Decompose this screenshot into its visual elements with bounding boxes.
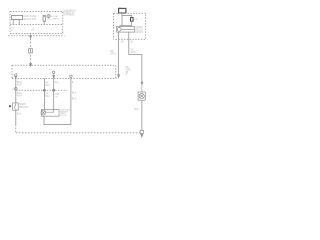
- BCM box bottom dashed line L2: [12, 77, 117, 79]
- BCM left dashed edge: [11, 65, 13, 78]
- horn switch box: [13, 103, 19, 110]
- switch ground wire: [15, 110, 17, 124]
- svg-text:WHT: WHT: [17, 95, 23, 97]
- horn feed wire labels block: [126, 67, 131, 76]
- svg-text:BLK: BLK: [17, 114, 22, 116]
- relay pin wire right: [128, 32, 130, 39]
- motor wire 1 (left): [43, 78, 45, 110]
- switch ground wire labels: [17, 114, 22, 116]
- svg-text:SWITCH: SWITCH: [19, 107, 28, 109]
- wire A dashed continuation: [30, 38, 32, 62]
- fuse F2 lower leg: [131, 21, 133, 26]
- BCM pin arrow (wash wire): [53, 74, 55, 79]
- relay label text: [136, 27, 144, 34]
- fuse F1 right leg: [18, 20, 20, 25]
- svg-text:MOTOR: MOTOR: [60, 115, 68, 117]
- horn box: [138, 92, 145, 100]
- relay contact line: [121, 28, 134, 30]
- svg-text:MAIN FUSE: MAIN FUSE: [24, 15, 37, 18]
- svg-text:BLOCK 15A: BLOCK 15A: [24, 18, 37, 21]
- switch wire labels lower: [17, 93, 23, 98]
- switch ground dashed continuation: [15, 125, 17, 133]
- switch wire labels upper: [17, 82, 23, 86]
- svg-text:BLK: BLK: [72, 92, 77, 94]
- relay control wire arrow into BCM: [118, 75, 120, 78]
- relay pin wire left: [118, 32, 120, 39]
- fuse block interior label: [11, 27, 14, 31]
- underhood fuse block dashed box (top-right): [114, 13, 146, 39]
- splice circle on connector line: [15, 88, 18, 91]
- motor circle with cross: [41, 110, 46, 115]
- svg-text:WHT: WHT: [17, 84, 23, 86]
- motor wire 2 labels: [55, 82, 61, 98]
- relay feed drop right: [128, 25, 130, 28]
- wire A inline connector box: [29, 49, 33, 53]
- fuse F1 left leg: [12, 20, 14, 25]
- switch label text: [19, 104, 28, 109]
- motor return wire labels: [72, 82, 77, 101]
- switch wire upper segment: [15, 79, 17, 103]
- battery top bus wire: [122, 15, 132, 17]
- fuse F1 label text: [24, 15, 37, 21]
- BCM pin connector circle (switch wire): [15, 74, 17, 76]
- horn feed wire with bend: [129, 39, 142, 82]
- washer pump motor box: [41, 110, 59, 117]
- horn wire connector arrow: [141, 82, 143, 92]
- relay control wire labels: [110, 51, 115, 56]
- svg-text:BLU: BLU: [45, 85, 50, 87]
- horn feed wire label upper: [130, 49, 135, 53]
- BCM box top dashed line L1: [12, 64, 114, 66]
- horn lamp circle with X: [139, 94, 144, 99]
- svg-text:BLU: BLU: [45, 96, 50, 98]
- svg-text:SCHEMATIC: SCHEMATIC: [64, 14, 76, 17]
- fuse F2 body (dark): [131, 18, 134, 22]
- battery wire down: [121, 13, 123, 26]
- indicator circle: [47, 15, 50, 18]
- svg-text:GRN: GRN: [110, 54, 115, 56]
- fuse block lower dashed line: [8, 35, 65, 37]
- wire A inline connector dot: [30, 50, 31, 51]
- svg-text:HOT AT: HOT AT: [51, 15, 59, 18]
- fuse F1 body: [11, 16, 22, 20]
- svg-text:BLK: BLK: [72, 99, 77, 101]
- motor return wire (down, across, up): [44, 78, 71, 125]
- relay feed drop left: [119, 25, 121, 28]
- ground distribution dashed line L4: [16, 132, 140, 134]
- horn relay box: [117, 27, 135, 32]
- wire A entry arrow into BCM: [30, 62, 32, 66]
- svg-text:GRN: GRN: [130, 52, 135, 54]
- circuit breaker leg: [43, 21, 45, 24]
- motor wire 1 junction on L3: [43, 89, 45, 91]
- connector dashed line L3: [16, 89, 67, 91]
- motor internal link: [46, 110, 54, 113]
- switch actuator dark square: [9, 105, 11, 107]
- relay coil circle: [117, 27, 121, 31]
- BCM right dashed edge: [115, 65, 117, 78]
- svg-text:BLK: BLK: [134, 109, 139, 111]
- BCM pin connector circle (wash wire): [53, 71, 55, 73]
- svg-text:ALL TIMES: ALL TIMES: [48, 18, 60, 21]
- switch lever: [14, 104, 15, 111]
- fuse block inner dashed bus line: [10, 24, 63, 26]
- underhood fuse block dashed box (top-left): [10, 12, 63, 34]
- motor wire 2 junction on L3: [53, 89, 55, 91]
- svg-text:MICRO: MICRO: [136, 32, 144, 34]
- indicator circle inner: [48, 16, 49, 17]
- battery: [119, 8, 126, 13]
- battery terminal tick: [119, 6, 121, 9]
- ground pad G305: [140, 130, 143, 133]
- motor label text: [60, 110, 73, 117]
- ground arrow: [141, 134, 143, 137]
- relay feed bus: [120, 25, 132, 27]
- motor wire 2 (right): [53, 78, 55, 109]
- wire A arrow below fuse block: [30, 34, 32, 39]
- BCM pin arrow (switch wire): [15, 76, 17, 79]
- relay control wire down: [118, 39, 120, 74]
- circuit breaker component: [43, 16, 45, 22]
- BCM pin connector circle (motor return): [70, 75, 72, 77]
- motor wire 1 labels: [45, 82, 50, 98]
- box corner label (outside top-right): [64, 10, 77, 17]
- svg-text:PPL: PPL: [55, 82, 60, 84]
- horn ground wire: [141, 100, 143, 130]
